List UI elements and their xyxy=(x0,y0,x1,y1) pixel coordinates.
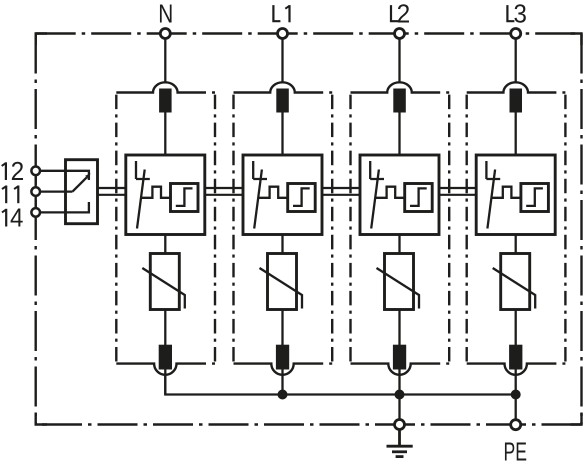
wire varistor to bottom disconnector L3 xyxy=(515,310,517,346)
wire disconnector to spark gap L2 xyxy=(398,113,400,156)
signalling terminal 11 xyxy=(31,187,40,196)
contact 11 common wire xyxy=(40,190,73,192)
signalling terminal 12 xyxy=(31,167,40,176)
label 11 xyxy=(5,186,7,204)
phase terminal L3 xyxy=(511,29,521,39)
varistor diagonal stroke L3 xyxy=(493,268,536,309)
wire varistor to bottom disconnector N xyxy=(164,310,166,346)
varistor RV-L1 xyxy=(268,254,297,310)
phase terminal L1 xyxy=(278,29,288,39)
wire bottom block to PE bus N xyxy=(164,370,166,395)
thermal disconnector (top black block) N xyxy=(159,89,172,113)
contact 12 wire and fixed contact xyxy=(40,171,89,180)
bottom disconnector block N xyxy=(159,345,172,370)
varistor diagonal stroke N xyxy=(142,268,185,309)
signalling terminal 14 xyxy=(31,208,40,217)
triggered spark gap unit U-L2 (box) xyxy=(360,155,439,235)
junction node on PE bus at x=282.5 xyxy=(278,390,288,400)
svg-text:N: N xyxy=(158,1,173,29)
varistor diagonal stroke L1 xyxy=(260,268,303,309)
varistor diagonal stroke L2 xyxy=(377,268,420,309)
wire bottom block to PE bus L1 xyxy=(281,370,283,395)
trigger circuit box L2 xyxy=(405,184,433,212)
wire bottom block to PE bus L2 xyxy=(398,370,400,395)
bottom disconnector block L1 xyxy=(276,345,289,370)
trigger circuit box L3 xyxy=(521,184,549,212)
bottom disconnector block L3 xyxy=(509,345,522,370)
border corner joints xyxy=(36,34,582,425)
varistor RV-N xyxy=(150,254,179,310)
follow-current waveform symbol N xyxy=(141,187,171,198)
triggered spark gap unit U-L3 (box) xyxy=(476,155,555,235)
varistor RV-L3 xyxy=(501,254,530,310)
triggered spark gap unit U-N (box) xyxy=(126,155,205,235)
wire L1 terminal to top disconnector xyxy=(281,39,283,84)
svg-text:3: 3 xyxy=(514,0,527,28)
switch blade with arrow xyxy=(73,177,87,191)
wire disconnector to spark gap L3 xyxy=(515,113,517,156)
varistor RV-L2 xyxy=(385,254,414,310)
wire segments joining terminals 12-11-14 xyxy=(35,175,37,208)
label L3 xyxy=(507,5,514,21)
protection module enclosure (dash-dot) N xyxy=(116,82,215,375)
svg-text:2: 2 xyxy=(397,0,411,28)
remote signalling changeover contact box K1 xyxy=(66,160,98,224)
wire spark gap to varistor N xyxy=(164,235,166,254)
spark gap electrode symbol L2 xyxy=(370,161,384,229)
thermal disconnector (top black block) L2 xyxy=(393,89,406,113)
protection module enclosure (dash-dot) L1 xyxy=(234,82,333,374)
ground symbol xyxy=(387,429,413,456)
terminal PE xyxy=(511,420,521,430)
follow-current waveform symbol L2 xyxy=(375,187,405,198)
wire PE bus to PE terminal xyxy=(515,395,517,420)
wire spark gap to varistor L1 xyxy=(281,235,283,254)
wire L2 terminal to top disconnector xyxy=(398,39,400,84)
thermal disconnector (top black block) L3 xyxy=(510,89,523,113)
junction node on PE bus at x=399.5 xyxy=(395,390,405,400)
step function glyph L1 xyxy=(293,188,310,206)
enclosure border (dash-dot device outline) xyxy=(36,34,582,425)
protection module enclosure (dash-dot) L2 xyxy=(351,82,450,374)
svg-text:4: 4 xyxy=(10,205,23,233)
trigger circuit box L1 xyxy=(288,184,316,212)
label 14 xyxy=(5,209,7,227)
series connection double links between modules xyxy=(98,188,477,195)
trigger circuit box N xyxy=(171,184,199,212)
wire bottom block to PE bus L3 xyxy=(515,370,517,395)
contact 14 wire and fixed contact xyxy=(40,202,89,212)
wire disconnector to spark gap L1 xyxy=(281,113,283,156)
follow-current waveform symbol L3 xyxy=(491,187,521,198)
phase terminal L2 xyxy=(395,29,405,39)
wire N terminal to top disconnector xyxy=(164,39,166,84)
spark gap electrode symbol N xyxy=(136,161,150,229)
bottom disconnector block L2 xyxy=(393,345,406,370)
follow-current waveform symbol L1 xyxy=(258,187,288,198)
PE bus wire (bottom horizontal) xyxy=(165,374,515,395)
wire spark gap to varistor L2 xyxy=(398,235,400,254)
step function glyph L2 xyxy=(410,188,427,206)
step function glyph N xyxy=(176,188,193,206)
wire PE bus to earth terminal xyxy=(398,395,400,420)
thermal disconnector (top black block) L1 xyxy=(276,89,289,113)
label 12 xyxy=(5,162,7,180)
spark gap electrode symbol L1 xyxy=(253,161,267,229)
earth terminal circle xyxy=(395,420,405,430)
spark gap electrode symbol L3 xyxy=(486,161,500,229)
wire L3 terminal to top disconnector xyxy=(515,39,517,84)
label L2 xyxy=(391,5,398,21)
phase terminal N xyxy=(160,29,170,39)
wire disconnector to spark gap N xyxy=(164,113,166,156)
triggered spark gap unit U-L1 (box) xyxy=(243,155,322,235)
label L1 xyxy=(273,5,280,21)
wire spark gap to varistor L3 xyxy=(515,235,517,254)
junction node on PE bus at x=515.7 xyxy=(511,390,521,400)
svg-text:2: 2 xyxy=(11,158,25,186)
protection module enclosure (dash-dot) L3 xyxy=(467,82,566,375)
wire varistor to bottom disconnector L1 xyxy=(281,310,283,346)
step function glyph L3 xyxy=(526,188,543,206)
svg-text:PE: PE xyxy=(504,439,528,467)
wire varistor to bottom disconnector L2 xyxy=(398,310,400,346)
